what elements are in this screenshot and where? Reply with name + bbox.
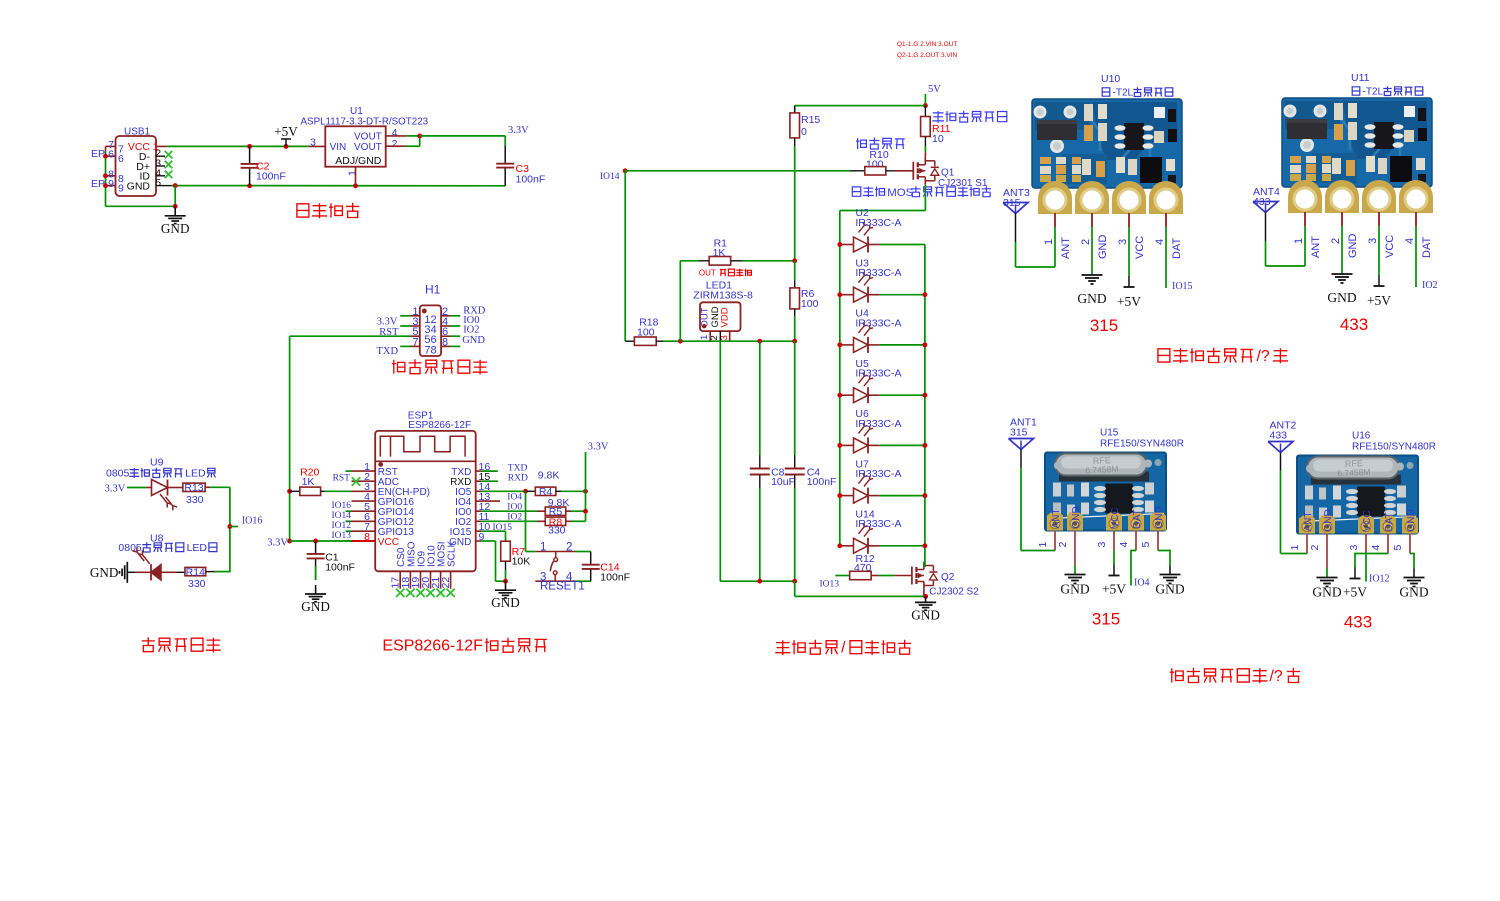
svg-text:ANT: ANT <box>1303 512 1314 532</box>
svg-text:GND: GND <box>1077 291 1106 306</box>
svg-text:U15: U15 <box>1100 428 1119 439</box>
svg-text:VOUT: VOUT <box>354 142 382 153</box>
svg-text:IR333C-A: IR333C-A <box>855 518 901 530</box>
svg-text:+5V: +5V <box>1343 585 1367 600</box>
svg-text:RFE150/SYN480R: RFE150/SYN480R <box>1352 442 1436 453</box>
svg-text:330: 330 <box>548 525 566 537</box>
svg-text:GND: GND <box>911 607 940 622</box>
svg-text:U16: U16 <box>1352 431 1371 442</box>
svg-text:3: 3 <box>1096 542 1108 548</box>
svg-text:2: 2 <box>1330 238 1342 244</box>
svg-text:VDD: VDD <box>719 307 730 327</box>
svg-text:5: 5 <box>1392 545 1404 551</box>
svg-text:1: 1 <box>1293 238 1305 244</box>
svg-text:H1: H1 <box>425 283 441 297</box>
svg-text:GND: GND <box>1097 235 1109 260</box>
svg-text:/?: /? <box>1257 348 1270 365</box>
svg-text:100: 100 <box>801 298 819 310</box>
svg-text:5: 5 <box>155 177 161 189</box>
svg-text:3: 3 <box>1348 545 1360 551</box>
svg-text:Q2-1.G 2.OUT 3.VIN: Q2-1.G 2.OUT 3.VIN <box>897 52 958 59</box>
svg-text:GND: GND <box>1155 582 1184 597</box>
svg-text:3.3V: 3.3V <box>267 537 288 548</box>
svg-text:100nF: 100nF <box>807 476 837 488</box>
svg-text:+5V: +5V <box>274 124 298 139</box>
svg-text:GND: GND <box>1399 585 1428 600</box>
svg-text:10uF: 10uF <box>771 476 795 488</box>
svg-text:OUT: OUT <box>699 269 716 278</box>
svg-text:9: 9 <box>118 183 124 195</box>
svg-text:Q2: Q2 <box>941 572 955 583</box>
svg-text:VCC: VCC <box>1110 507 1121 528</box>
svg-text:IO16: IO16 <box>331 501 351 511</box>
svg-text:ANT: ANT <box>1051 509 1062 529</box>
svg-text:315: 315 <box>1010 427 1028 439</box>
svg-text:/?: /? <box>1270 668 1283 685</box>
svg-text:IO2: IO2 <box>1422 280 1438 291</box>
svg-text:100nF: 100nF <box>516 174 546 186</box>
svg-text:U10: U10 <box>1101 73 1120 85</box>
svg-text:8: 8 <box>442 336 448 348</box>
svg-text:IR333C-A: IR333C-A <box>855 368 901 380</box>
svg-text:GND: GND <box>301 599 330 614</box>
svg-text:9.8K: 9.8K <box>538 470 560 482</box>
svg-text:315: 315 <box>1090 316 1118 335</box>
svg-text:4: 4 <box>1154 239 1166 245</box>
svg-text:5: 5 <box>1140 542 1152 548</box>
svg-text:ESP8266-12F: ESP8266-12F <box>382 638 483 655</box>
svg-text:IO13: IO13 <box>331 531 351 541</box>
svg-text:IO13: IO13 <box>820 580 840 590</box>
svg-text:330: 330 <box>186 494 204 506</box>
svg-text:100nF: 100nF <box>325 562 355 574</box>
svg-text:1K: 1K <box>302 476 315 488</box>
svg-text:6.7458M: 6.7458M <box>1085 464 1119 476</box>
svg-text:100nF: 100nF <box>600 571 630 583</box>
svg-text:ADJ/GND: ADJ/GND <box>335 155 382 167</box>
svg-text:EP: EP <box>91 178 105 190</box>
svg-text:3.3V: 3.3V <box>377 317 398 328</box>
svg-text:R15: R15 <box>801 114 820 126</box>
svg-text:VIN: VIN <box>330 142 347 153</box>
svg-text:4: 4 <box>1370 545 1382 551</box>
svg-text:IO2: IO2 <box>463 325 479 336</box>
svg-text:GND: GND <box>1071 506 1082 528</box>
svg-text:IR333C-A: IR333C-A <box>855 468 901 480</box>
svg-text:VOUT: VOUT <box>354 132 382 143</box>
svg-text:DAT: DAT <box>1384 512 1395 531</box>
svg-text:IO12: IO12 <box>331 521 351 531</box>
svg-text:ANT: ANT <box>1310 236 1322 258</box>
svg-text:2: 2 <box>1309 545 1321 551</box>
svg-text:2: 2 <box>1080 239 1092 245</box>
svg-text:4: 4 <box>392 127 398 139</box>
svg-text:-T2L: -T2L <box>1363 87 1384 98</box>
svg-text:VCC: VCC <box>1362 510 1373 531</box>
svg-text:9: 9 <box>108 178 114 190</box>
svg-text:DAT: DAT <box>1171 238 1183 259</box>
svg-text:GND: GND <box>1060 582 1089 597</box>
svg-text:VCC: VCC <box>378 537 399 548</box>
svg-text:RXD: RXD <box>508 473 528 483</box>
svg-text:7: 7 <box>412 336 418 348</box>
svg-text:GND: GND <box>90 565 119 580</box>
svg-text:3.3V: 3.3V <box>588 441 609 452</box>
svg-text:1: 1 <box>347 170 359 176</box>
svg-text:MOS: MOS <box>887 187 913 199</box>
svg-text:SCLK: SCLK <box>447 541 458 567</box>
svg-text:IR333C-A: IR333C-A <box>855 317 901 329</box>
svg-text:4: 4 <box>1404 238 1416 244</box>
svg-text:+5V: +5V <box>1102 582 1126 597</box>
svg-text:-T2L: -T2L <box>1113 88 1134 99</box>
svg-text:LED: LED <box>185 468 206 480</box>
svg-text:IO2: IO2 <box>507 513 522 523</box>
svg-text:IR333C-A: IR333C-A <box>855 217 901 229</box>
svg-text:3: 3 <box>1367 238 1379 244</box>
svg-text:1: 1 <box>540 542 546 554</box>
svg-text:1: 1 <box>1043 239 1055 245</box>
svg-text:ANT: ANT <box>1060 237 1072 259</box>
svg-text:IO15: IO15 <box>492 523 512 533</box>
svg-text:TXD: TXD <box>508 463 528 473</box>
svg-text:GND: GND <box>1154 506 1165 528</box>
svg-text:0805: 0805 <box>118 542 142 554</box>
svg-text:RST: RST <box>333 474 351 484</box>
svg-text:IO14: IO14 <box>331 511 351 521</box>
svg-text:R13: R13 <box>184 482 203 494</box>
svg-text:DAT: DAT <box>1421 237 1433 258</box>
svg-text:IR333C-A: IR333C-A <box>855 267 901 279</box>
svg-text:IO4: IO4 <box>1134 578 1150 589</box>
svg-text:GND: GND <box>1323 509 1334 531</box>
svg-text:3.3V: 3.3V <box>105 483 126 494</box>
svg-text:10: 10 <box>932 133 944 145</box>
svg-text:2: 2 <box>392 138 398 150</box>
svg-text:R14: R14 <box>186 566 205 578</box>
svg-text:GND: GND <box>1312 585 1341 600</box>
svg-text:9.8K: 9.8K <box>548 497 570 509</box>
svg-text:10K: 10K <box>512 556 531 568</box>
svg-text:ZIRM138S-8: ZIRM138S-8 <box>693 290 753 302</box>
svg-text:U9: U9 <box>150 457 164 469</box>
svg-text:78: 78 <box>424 344 436 356</box>
svg-text:GND: GND <box>1327 290 1356 305</box>
svg-text:LED: LED <box>187 542 208 554</box>
svg-text:3: 3 <box>1117 239 1129 245</box>
svg-text:330: 330 <box>188 578 206 590</box>
svg-text:0805: 0805 <box>106 468 130 480</box>
svg-text:GND: GND <box>1406 509 1417 531</box>
svg-text:1: 1 <box>1289 545 1301 551</box>
svg-text:3.3V: 3.3V <box>508 125 529 136</box>
svg-text:5V: 5V <box>928 84 941 95</box>
svg-text:RFE150/SYN480R: RFE150/SYN480R <box>1100 439 1184 450</box>
svg-text:TXD: TXD <box>377 346 399 357</box>
svg-text:IO16: IO16 <box>242 516 263 527</box>
svg-text:CJ2302 S2: CJ2302 S2 <box>929 587 979 598</box>
svg-text:315: 315 <box>1092 610 1120 629</box>
svg-text:ESP8266-12F: ESP8266-12F <box>408 420 471 431</box>
svg-text:IO0: IO0 <box>507 503 522 513</box>
svg-text:EP: EP <box>91 148 105 160</box>
svg-text:433: 433 <box>1270 430 1288 442</box>
svg-text:6: 6 <box>118 153 124 165</box>
svg-text:22: 22 <box>440 577 452 589</box>
svg-text:0: 0 <box>801 126 807 138</box>
svg-text:+5V: +5V <box>1117 294 1141 309</box>
svg-text:2: 2 <box>1057 542 1069 548</box>
svg-text:RESET1: RESET1 <box>540 581 585 593</box>
svg-text:IO14: IO14 <box>600 172 620 182</box>
svg-text:100nF: 100nF <box>256 171 286 183</box>
svg-text:IR333C-A: IR333C-A <box>855 418 901 430</box>
svg-text:6: 6 <box>108 149 114 161</box>
svg-text:U11: U11 <box>1351 72 1370 84</box>
svg-text:GND: GND <box>1347 234 1359 259</box>
svg-text:GND: GND <box>161 221 190 236</box>
svg-text:GND: GND <box>462 335 485 346</box>
svg-text:VCC: VCC <box>1384 235 1396 258</box>
svg-text:/: / <box>841 640 846 657</box>
svg-text:+5V: +5V <box>1367 293 1391 308</box>
svg-text:DAT: DAT <box>1132 509 1143 528</box>
svg-text:1: 1 <box>1037 542 1049 548</box>
svg-text:2: 2 <box>566 542 572 554</box>
svg-text:6.7458M: 6.7458M <box>1337 467 1371 479</box>
svg-text:IO4: IO4 <box>507 493 522 503</box>
svg-text:433: 433 <box>1340 315 1368 334</box>
svg-text:IO15: IO15 <box>1172 281 1193 292</box>
svg-text:GND: GND <box>491 595 520 610</box>
svg-text:GND: GND <box>127 180 151 192</box>
svg-text:4: 4 <box>1118 542 1130 548</box>
svg-text:Q1-1.G 2.VIN 3.OUT: Q1-1.G 2.VIN 3.OUT <box>897 41 957 48</box>
svg-text:433: 433 <box>1344 613 1372 632</box>
svg-text:IO12: IO12 <box>1369 574 1390 585</box>
svg-text:VCC: VCC <box>1134 236 1146 259</box>
